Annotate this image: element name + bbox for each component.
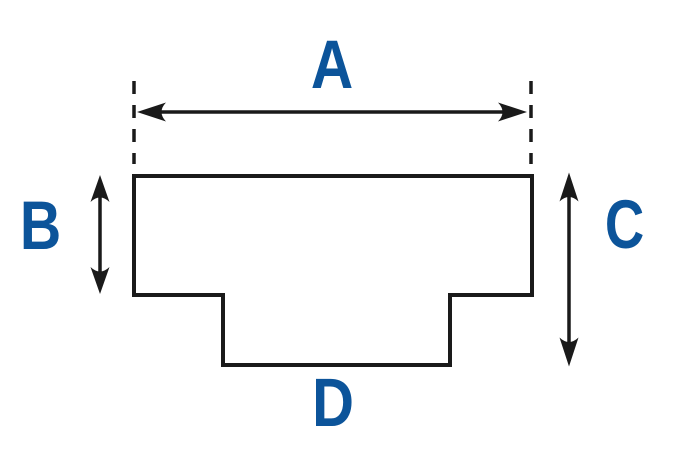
svg-text:D: D <box>312 363 354 441</box>
profile outline of stepped part <box>134 176 532 365</box>
label C <box>605 187 644 264</box>
svg-text:B: B <box>20 188 61 264</box>
extension line right (dashed) <box>529 81 533 164</box>
dimension arrow B (vertical, double-headed, left) <box>98 194 102 275</box>
label D <box>312 363 354 441</box>
dimension arrow A (horizontal, double-headed) <box>158 110 506 114</box>
dimension arrow C (vertical, double-headed, right) <box>567 194 571 345</box>
extension line left (dashed) <box>132 81 136 164</box>
label A <box>311 26 353 104</box>
svg-text:A: A <box>311 26 353 104</box>
svg-text:C: C <box>605 187 644 264</box>
label B <box>20 188 61 264</box>
